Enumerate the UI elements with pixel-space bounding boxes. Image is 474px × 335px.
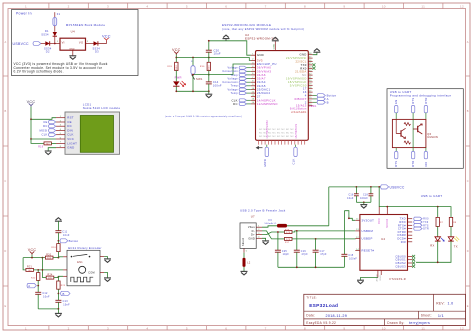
- LCD module body: [65, 112, 120, 154]
- svg-text:FT231XS-R: FT231XS-R: [390, 277, 406, 281]
- LCD port DC: [43, 124, 56, 128]
- svg-text:13/HSPIMOSI: 13/HSPIMOSI: [266, 120, 269, 138]
- ESP32 U2 reference: [245, 33, 277, 41]
- junction C26 top: [296, 230, 298, 232]
- svg-text:7: 7: [265, 326, 267, 330]
- ESP32 module title text: [222, 23, 304, 31]
- wire USBVCC to D2: [41, 43, 46, 45]
- svg-text:USBVCC: USBVCC: [390, 186, 405, 190]
- resistor R7: [436, 207, 444, 227]
- USB jack labels: [240, 208, 286, 218]
- wire D- crossover: [262, 231, 278, 239]
- bottom port RTS: [394, 148, 398, 167]
- junction C14 bottom: [208, 90, 210, 92]
- junction B port: [58, 293, 60, 295]
- wire USBDM line: [292, 231, 355, 232]
- svg-text:11: 11: [421, 326, 425, 330]
- USB to UART section box: [387, 89, 463, 169]
- wire D1 to node: [54, 37, 56, 44]
- Power In section box: [12, 10, 139, 76]
- ground below L2: [241, 271, 248, 275]
- Q6 internals: [396, 119, 422, 147]
- svg-text:F1: F1: [57, 12, 61, 16]
- svg-text:ESP32-WROOM-32U MODULE: ESP32-WROOM-32U MODULE: [222, 23, 271, 27]
- resistor R30: [200, 58, 211, 75]
- svg-text:8: 8: [304, 326, 306, 330]
- svg-text:A: A: [467, 40, 469, 44]
- bottom MOSI port: [263, 147, 269, 166]
- LED PWR: [173, 71, 186, 92]
- TX0 RX0 stubs: [312, 63, 315, 69]
- svg-text:C16: C16: [348, 195, 354, 197]
- ground under U4: [69, 56, 76, 60]
- wire Vbus to F3: [262, 226, 277, 227]
- svg-text:CLK: CLK: [41, 133, 47, 137]
- svg-text:R16: R16: [285, 230, 289, 232]
- svg-text:12: 12: [460, 4, 464, 8]
- svg-text:27R: 27R: [286, 232, 291, 234]
- capacitor C26: [294, 231, 308, 267]
- svg-text:1: 1: [25, 326, 27, 330]
- svg-text:A: A: [4, 40, 6, 44]
- junction R20/R26: [58, 257, 60, 259]
- svg-text:Power In: Power In: [16, 11, 32, 15]
- svg-text:NC NC NC NC NC NC NC NC: NC NC NC NC NC NC NC NC: [259, 132, 294, 134]
- svg-text:4: 4: [146, 4, 148, 8]
- svg-text:Vbus: Vbus: [248, 225, 256, 229]
- svg-text:D: D: [4, 249, 6, 253]
- resistor R24: [42, 274, 58, 279]
- svg-text:GND: GND: [67, 146, 74, 150]
- svg-text:B: B: [4, 109, 6, 113]
- wire to switch pin: [58, 256, 63, 258]
- svg-text:A: A: [28, 284, 30, 288]
- svg-text:9: 9: [343, 326, 345, 330]
- resistor RA1: [278, 230, 293, 234]
- capacitor C17: [313, 239, 327, 267]
- svg-text:Sheet:: Sheet:: [421, 314, 432, 318]
- svg-text:VO: VO: [79, 40, 83, 44]
- svg-text:VI: VI: [62, 40, 65, 44]
- LCD port MOSI: [40, 129, 56, 133]
- svg-text:3V3OUT: 3V3OUT: [362, 218, 375, 222]
- wire D3 to VCC: [98, 41, 107, 44]
- wire jack GND: [262, 238, 266, 241]
- svg-text:Voltage: Voltage: [228, 67, 239, 70]
- svg-text:U4: U4: [71, 30, 75, 34]
- FT231 CBUS pins: [395, 254, 415, 268]
- svg-text:GND: GND: [273, 43, 275, 49]
- ground LCD: [45, 151, 52, 155]
- top port EN: [394, 99, 398, 119]
- svg-text:VCCIO: VCCIO: [386, 219, 389, 228]
- net port USBVCC: [13, 42, 41, 46]
- svg-text:REV:: REV:: [436, 302, 445, 306]
- USB jack body U7: [240, 223, 256, 249]
- bottom-left arrow flag: [256, 146, 263, 150]
- LCD1 labels: [83, 103, 121, 111]
- ESP32 right pins: [286, 53, 313, 108]
- capacitor C12: [35, 286, 50, 309]
- junction VCC rail: [175, 57, 177, 59]
- title block: [304, 294, 466, 325]
- svg-text:2018-11-29: 2018-11-29: [326, 314, 348, 318]
- svg-text:NC NC NC NC NC NC NC NC: NC NC NC NC NC NC NC NC: [259, 136, 294, 138]
- svg-text:TX: TX: [454, 244, 458, 248]
- svg-text:8: 8: [304, 4, 306, 8]
- svg-text:12: 12: [460, 326, 464, 330]
- svg-text:5: 5: [186, 4, 188, 8]
- svg-text:B: B: [63, 292, 65, 296]
- svg-text:VCC: VCC: [378, 218, 381, 224]
- ground flag up on GND rail: [223, 35, 230, 41]
- svg-text:47pF: 47pF: [320, 254, 327, 256]
- svg-text:(note, that any ESP32 WROOM mo: (note, that any ESP32 WROOM module will …: [222, 27, 304, 31]
- svg-text:EC11 Rotary Encoder: EC11 Rotary Encoder: [68, 246, 102, 250]
- FT231 left pins: [355, 218, 374, 252]
- svg-text:10k: 10k: [48, 278, 52, 280]
- wire U4 VO to D3: [86, 43, 94, 45]
- svg-text:Programming and debugging inte: Programming and debugging interface: [390, 94, 452, 98]
- diode D2 SS34: [44, 41, 52, 53]
- wire VCC rail: [176, 58, 251, 61]
- svg-text:4: 4: [146, 326, 148, 330]
- svg-text:Voltage: Voltage: [228, 78, 239, 81]
- svg-text:E: E: [4, 304, 6, 308]
- svg-text:SW1: SW1: [196, 77, 203, 81]
- fuse F3 body: [277, 224, 287, 228]
- svg-text:COM: COM: [88, 272, 94, 275]
- svg-text:Drawn By:: Drawn By:: [387, 321, 404, 325]
- capacitor C14: [206, 75, 222, 92]
- junction LED bottom: [175, 90, 177, 92]
- svg-text:GND: GND: [248, 236, 255, 240]
- svg-text:DTR: DTR: [423, 229, 429, 231]
- svg-text:47pF: 47pF: [302, 254, 309, 256]
- net port USBVCC: [381, 185, 405, 190]
- svg-text:ESP32Load: ESP32Load: [309, 303, 338, 309]
- LCD port CE: [43, 120, 56, 124]
- svg-text:USB 2.0 Type B Female Jack: USB 2.0 Type B Female Jack: [240, 208, 286, 212]
- fuse F1: [53, 12, 61, 26]
- svg-text:9: 9: [343, 4, 345, 8]
- bottom gnd wire encoder: [38, 308, 58, 310]
- junction C20 bottom: [208, 57, 210, 59]
- svg-text:SS34: SS34: [41, 32, 49, 36]
- capacitor C13: [55, 294, 70, 309]
- svg-text:10: 10: [382, 4, 386, 8]
- capacitor C11: [55, 231, 69, 241]
- svg-text:C: C: [4, 179, 6, 183]
- svg-text:Conversion: Conversion: [222, 81, 238, 84]
- svg-text:D-: D-: [252, 229, 255, 233]
- svg-text:MOSI: MOSI: [40, 129, 48, 133]
- ESP32 bottom pins: [266, 120, 298, 147]
- svg-text:7: 7: [265, 4, 267, 8]
- svg-text:R25: R25: [61, 285, 66, 287]
- resistor R20: [45, 254, 58, 259]
- svg-text:USBDP: USBDP: [362, 237, 373, 241]
- svg-text:R28: R28: [176, 65, 178, 70]
- right GND pin to ground: [313, 49, 321, 55]
- svg-text:DC: DC: [43, 124, 47, 128]
- svg-text:B: B: [327, 100, 329, 104]
- svg-text:LED1: LED1: [309, 105, 317, 108]
- svg-text:TITLE:: TITLE:: [306, 295, 317, 299]
- svg-text:0.2V through schottkey diode.: 0.2V through schottkey diode.: [14, 69, 64, 73]
- buck module U4: [57, 23, 105, 50]
- junction B/R25: [58, 276, 60, 278]
- USBVCC riser: [328, 187, 330, 226]
- svg-text:terryjmyers: terryjmyers: [409, 321, 430, 325]
- junction A/R22: [37, 269, 39, 271]
- LED TX: [448, 226, 459, 248]
- svg-text:27R: 27R: [286, 239, 291, 241]
- bottom port DTR: [411, 148, 415, 167]
- svg-text:USBVCC: USBVCC: [13, 42, 30, 46]
- LED return wire: [437, 241, 439, 262]
- svg-text:DTR: DTR: [411, 160, 415, 166]
- svg-text:C: C: [467, 179, 469, 183]
- svg-text:3: 3: [107, 326, 109, 330]
- wire EN node to chip EN pin: [193, 64, 251, 75]
- svg-text:Shield: Shield: [243, 237, 245, 246]
- wire LCD GND: [48, 148, 56, 151]
- ferrite L2: [243, 253, 251, 272]
- net port Button: [60, 239, 79, 243]
- svg-text:D2: D2: [46, 50, 50, 54]
- USB to UART section labels: [390, 90, 452, 98]
- resistor R19: [38, 142, 56, 149]
- svg-text:RTS: RTS: [394, 161, 398, 167]
- svg-text:IO0: IO0: [424, 161, 428, 166]
- svg-text:1.0: 1.0: [448, 302, 454, 306]
- capacitor C20: [206, 41, 221, 58]
- svg-text:Button: Button: [69, 239, 79, 243]
- VCC net flag (power in): [102, 34, 111, 41]
- svg-text:0/A11/Button: 0/A11/Button: [290, 108, 307, 111]
- svg-text:D3: D3: [95, 50, 99, 54]
- svg-text:RI#: RI#: [401, 240, 406, 244]
- FT231 chip body U4: [360, 215, 408, 271]
- ground flag above chip: [272, 37, 279, 41]
- VCC riser to FT231: [379, 187, 451, 218]
- junction EN node: [208, 74, 210, 76]
- svg-text:GND: GND: [380, 275, 382, 281]
- svg-text:MP1584EN Buck Module: MP1584EN Buck Module: [66, 23, 106, 27]
- svg-text:C18: C18: [363, 195, 369, 197]
- svg-text:2: 2: [68, 4, 70, 8]
- svg-text:VCC: VCC: [28, 248, 37, 252]
- fuse F3 labels: [265, 219, 278, 225]
- chip internal labels: [290, 108, 307, 114]
- svg-text:10nF: 10nF: [63, 234, 70, 237]
- 3V3OUT wire and C15 tap: [344, 211, 355, 221]
- svg-text:330: 330: [46, 143, 51, 145]
- right ports TX/RX/RTS/DTR: [414, 217, 429, 231]
- ground flag up (button): [55, 218, 62, 231]
- svg-text:MOSI: MOSI: [263, 158, 267, 166]
- encoder pin stubs: [63, 257, 104, 277]
- svg-text:RESET#: RESET#: [362, 249, 375, 253]
- svg-text:500mA L1: 500mA L1: [265, 222, 278, 225]
- junction C27 top: [315, 238, 317, 240]
- junction C16b: [356, 186, 358, 188]
- wire A row: [34, 269, 64, 271]
- ESP32 chip body U2: [256, 51, 309, 141]
- svg-text:B: B: [467, 109, 469, 113]
- resistor R21: [26, 266, 34, 272]
- top port DTR: [424, 97, 428, 119]
- svg-text:R17: R17: [285, 242, 289, 244]
- svg-text:100nF: 100nF: [360, 198, 368, 200]
- svg-text:D+: D+: [251, 233, 255, 237]
- svg-text:TX0: TX0: [423, 222, 429, 224]
- wire D+ crossover: [262, 232, 278, 235]
- svg-text:C17: C17: [320, 251, 326, 253]
- svg-text:GND: GND: [257, 53, 264, 57]
- switch SW1: [191, 58, 203, 92]
- svg-text:10k: 10k: [28, 270, 32, 272]
- wire to B pin: [58, 276, 63, 277]
- left CLK DC ports: [231, 98, 250, 106]
- right Button/A/B ports: [313, 94, 337, 105]
- resistor R8: [449, 217, 457, 226]
- svg-text:U4: U4: [381, 237, 385, 241]
- svg-text:R22: R22: [31, 277, 36, 279]
- svg-text:5: 5: [186, 326, 188, 330]
- svg-text:DC: DC: [233, 102, 238, 106]
- svg-text:(note: a Trim-pot 10kB 5-10k r: (note: a Trim-pot 10kB 5-10k resistor ap…: [165, 115, 242, 118]
- svg-text:10pF: 10pF: [283, 254, 290, 256]
- resistor R26: [51, 241, 60, 258]
- junction A port: [37, 285, 39, 287]
- svg-text:C15: C15: [348, 255, 354, 257]
- svg-text:100nF: 100nF: [213, 83, 222, 87]
- left branch to R21: [23, 258, 26, 270]
- wire VCC down: [30, 119, 32, 139]
- svg-text:D: D: [467, 249, 469, 253]
- power note text: [14, 62, 108, 73]
- svg-text:PWR: PWR: [175, 76, 182, 80]
- svg-text:CBUS3: CBUS3: [395, 264, 406, 268]
- ESP32 left pins: [251, 53, 278, 106]
- resistor R25: [57, 278, 66, 294]
- encoder right ground 1: [104, 257, 111, 263]
- ESP32 left net ports: [222, 66, 251, 95]
- svg-text:100nF: 100nF: [349, 258, 357, 260]
- wire F3 to riser: [287, 225, 329, 227]
- junction C18: [370, 186, 372, 188]
- svg-text:GND: GND: [69, 48, 75, 50]
- svg-text:10nF: 10nF: [43, 295, 50, 298]
- bottom port IO0: [424, 148, 428, 167]
- capacitor C18: [360, 187, 373, 202]
- svg-text:R8: R8: [453, 222, 457, 224]
- encoder right ground 2: [104, 273, 111, 282]
- diode D1 SS34: [41, 29, 57, 36]
- svg-text:EN1: EN1: [77, 261, 83, 264]
- wire USBDP line: [292, 238, 355, 240]
- svg-text:2/A12/LED1: 2/A12/LED1: [291, 111, 307, 114]
- net port B: [61, 291, 70, 296]
- svg-text:RX0: RX0: [423, 219, 429, 221]
- ESP32 bottom pad row: [259, 129, 305, 145]
- svg-text:VCC: VCC: [67, 137, 74, 141]
- svg-text:1/1: 1/1: [438, 314, 444, 318]
- FT231 internal VCC names: [378, 218, 389, 241]
- svg-text:RTS: RTS: [423, 225, 429, 227]
- svg-text:10uF: 10uF: [214, 52, 221, 56]
- bottom CLK port: [292, 147, 297, 164]
- junction SW bottom: [192, 90, 194, 92]
- svg-text:Conversion: Conversion: [222, 70, 238, 73]
- svg-text:USBDM: USBDM: [362, 229, 374, 233]
- svg-text:Temp: Temp: [231, 92, 239, 95]
- svg-text:C16: C16: [301, 251, 307, 253]
- LCD port CLK: [41, 133, 55, 137]
- capacitor C16b: [347, 187, 359, 202]
- VCC net flag (rail): [172, 48, 181, 58]
- FT231 VCC stubs: [379, 207, 387, 215]
- svg-text:15/A13: 15/A13: [296, 104, 307, 108]
- svg-text:6: 6: [225, 4, 227, 8]
- svg-text:EasyEDA V5.9.22: EasyEDA V5.9.22: [306, 321, 336, 325]
- svg-text:R30: R30: [209, 65, 211, 70]
- svg-text:Temp: Temp: [231, 74, 239, 77]
- resistor R28: [167, 58, 178, 71]
- ground encoder bottom: [55, 309, 62, 317]
- svg-text:10nF: 10nF: [63, 303, 70, 306]
- wire VCC to VCC pin: [31, 138, 56, 140]
- capacitor C25: [275, 231, 289, 267]
- svg-text:RX: RX: [430, 243, 434, 247]
- USBVCC rail: [329, 186, 381, 188]
- ESP32 top GND pin: [273, 41, 275, 51]
- junction VCC LCD: [30, 118, 32, 120]
- svg-text:1: 1: [25, 4, 27, 8]
- svg-text:U7: U7: [251, 215, 255, 219]
- svg-text:CLK: CLK: [292, 158, 296, 164]
- svg-text:R26: R26: [51, 247, 56, 249]
- svg-text:Temp: Temp: [231, 85, 239, 88]
- svg-text:E: E: [467, 304, 469, 308]
- diode D3 SS34: [93, 41, 101, 53]
- junction Button: [58, 240, 60, 242]
- svg-text:Voltage: Voltage: [228, 88, 239, 91]
- junction GND rail: [208, 40, 210, 42]
- wire VCC to R19: [31, 139, 44, 143]
- LED RX: [430, 226, 444, 247]
- svg-text:NC NC NC NC NC NC NC NC: NC NC NC NC NC NC NC NC: [259, 129, 294, 131]
- svg-text:F3: F3: [269, 219, 273, 222]
- svg-text:Nokia 5110 LCD module: Nokia 5110 LCD module: [83, 106, 121, 110]
- svg-text:12/HSPIMISO: 12/HSPIMISO: [257, 102, 278, 106]
- FT231 bottom gnd: [357, 270, 382, 283]
- bottom bus wire: [278, 266, 345, 268]
- svg-text:R28: R28: [167, 66, 172, 68]
- svg-text:VCC: VCC: [27, 100, 36, 104]
- svg-text:10k: 10k: [47, 258, 51, 260]
- capacitor C15: [341, 211, 357, 268]
- caps gnd wire: [356, 201, 371, 203]
- wire fuse to D1: [54, 26, 56, 32]
- transistor pair Q6 box: [392, 119, 426, 147]
- svg-text:USB to UART: USB to UART: [421, 194, 443, 198]
- resistor RA2: [278, 237, 293, 244]
- svg-text:R30: R30: [200, 66, 205, 68]
- svg-text:2: 2: [68, 326, 70, 330]
